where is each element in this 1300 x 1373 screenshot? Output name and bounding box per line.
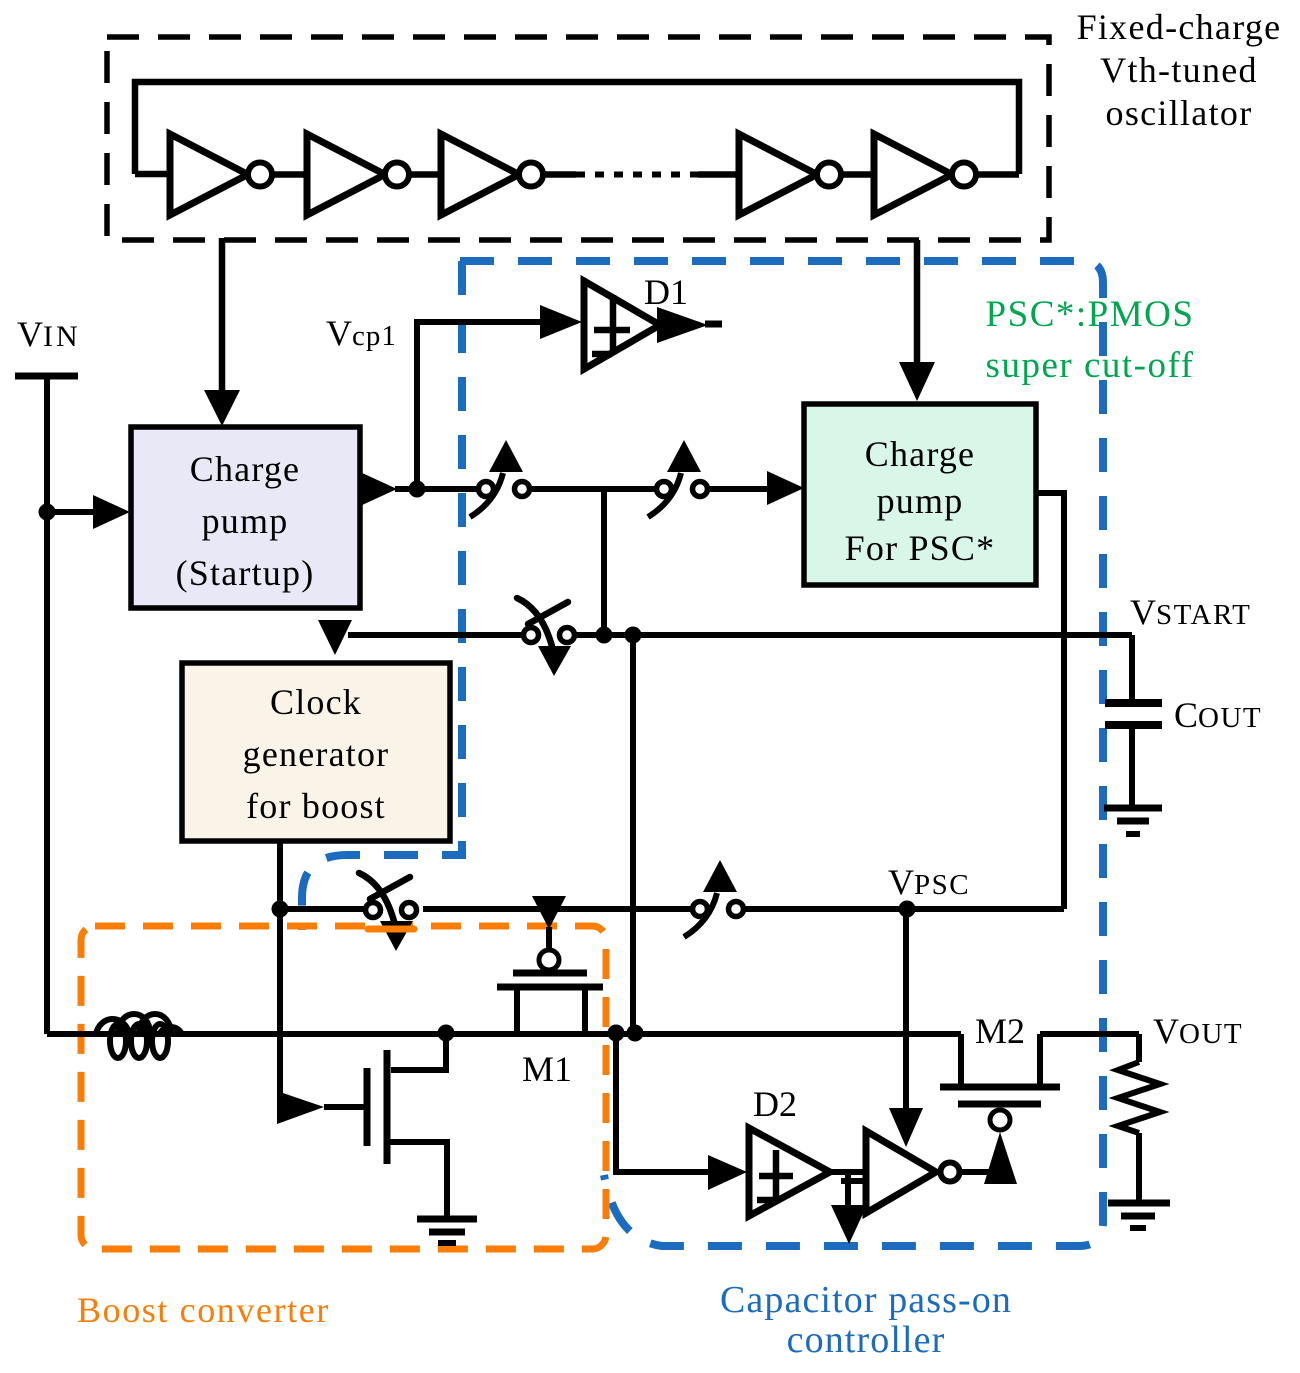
wire U4-U5 bbox=[841, 171, 874, 178]
wire U5 output to feedback bbox=[976, 171, 1019, 178]
charge pump for PSC box U-CP2 bbox=[804, 404, 1036, 585]
wire clock generator output down bbox=[277, 841, 283, 1095]
inductor L1 bbox=[110, 1024, 126, 1058]
switch S4 (opening, X and down arrow) bbox=[366, 903, 381, 918]
node M1 drain junction 1 bbox=[608, 1025, 625, 1042]
clock generator box bbox=[182, 663, 450, 841]
charge pump (startup) box U-CP1 bbox=[131, 427, 360, 608]
wire VSTART rail bbox=[348, 632, 525, 638]
node M1 drain junction 2 bbox=[627, 1025, 644, 1042]
switch S5 (closing, up arrow) bbox=[693, 902, 708, 917]
diode D2 (super diode) bbox=[749, 1128, 830, 1216]
wire PSC pump output down to VPSC bbox=[1036, 493, 1064, 909]
capacitor COUT bbox=[1129, 635, 1135, 701]
wire U1-U2 bbox=[272, 171, 307, 178]
svg-text:pump: pump bbox=[877, 481, 964, 521]
wire down to D2 input bbox=[616, 1033, 709, 1172]
svg-text:Fixed-charge: Fixed-charge bbox=[1077, 7, 1282, 47]
arrow up into M2 gate bbox=[984, 1132, 1017, 1184]
wire VPSC rail mid bbox=[423, 906, 691, 912]
svg-text:generator: generator bbox=[243, 734, 390, 774]
wire arrow down into clock generator bbox=[318, 620, 352, 655]
orange dashed boost converter box bbox=[81, 926, 606, 1249]
svg-text:For PSC*: For PSC* bbox=[845, 528, 996, 568]
svg-text:pump: pump bbox=[202, 501, 289, 541]
wire source of Q1 to ground bbox=[390, 1142, 447, 1217]
wire arrow into D1 bbox=[540, 305, 582, 339]
ground arrow at D2 output bbox=[845, 1172, 851, 1207]
node clock/VPSC junction bbox=[272, 901, 289, 918]
svg-text:super cut-off: super cut-off bbox=[986, 345, 1195, 386]
inverter U4 bbox=[739, 134, 817, 215]
wire inverter output to M2 gate bbox=[958, 1169, 996, 1175]
wire main bottom rail (inductor to M2) bbox=[47, 1031, 961, 1037]
wire into U4 bbox=[698, 171, 739, 178]
wire Vcp1 up to D1 bbox=[417, 322, 540, 489]
svg-text:D1: D1 bbox=[644, 272, 688, 312]
inverter U5 bbox=[874, 134, 952, 215]
switch S1 (closing, up arrow) bbox=[479, 482, 494, 497]
node Vcp1 junction bbox=[409, 481, 426, 498]
ground under Q1 bbox=[417, 1216, 477, 1223]
wire arrow into D2 bbox=[708, 1155, 747, 1190]
transistor M1 (PMOS) bbox=[513, 970, 587, 977]
resistor RL bbox=[1136, 1034, 1142, 1062]
svg-text:M2: M2 bbox=[975, 1011, 1025, 1051]
node VIN junction bbox=[39, 504, 56, 521]
svg-text:(Startup): (Startup) bbox=[176, 553, 315, 593]
switch S2 (closing, up arrow) bbox=[657, 482, 672, 497]
inverter U6 bbox=[866, 1131, 936, 1213]
wire Vcp1 rail to VSTART rail bbox=[601, 489, 607, 635]
svg-text:Vth-tuned: Vth-tuned bbox=[1100, 50, 1258, 90]
diode D1 (super diode) bbox=[584, 281, 660, 369]
wire between S1 and S2 bbox=[532, 486, 656, 492]
svg-text:Charge: Charge bbox=[190, 449, 301, 489]
transistor M1 gate arrow from VPSC rail bbox=[532, 896, 566, 929]
wire VPSC down to inverter supply bbox=[903, 909, 909, 1112]
wire VPSC rail bbox=[280, 906, 372, 912]
wire arrow into PSC pump bbox=[707, 486, 769, 492]
svg-text:Capacitor pass-on: Capacitor pass-on bbox=[720, 1279, 1012, 1321]
node VPSC bbox=[899, 901, 916, 918]
wire D2 output bbox=[830, 1169, 866, 1175]
wire U3 output bbox=[543, 171, 576, 178]
svg-text:M1: M1 bbox=[522, 1049, 572, 1089]
wire U2-U3 bbox=[409, 171, 441, 178]
ground under RL bbox=[1108, 1200, 1170, 1207]
wire M2 to VOUT bbox=[1040, 1031, 1139, 1037]
wire VSTART rail down to M1 drain rail bbox=[630, 635, 636, 1033]
wire VIN to startup pump bbox=[47, 509, 95, 515]
ground under COUT bbox=[1104, 805, 1162, 812]
transistor M2 (PMOS pass) bbox=[990, 1110, 1010, 1130]
svg-text:controller: controller bbox=[787, 1319, 946, 1361]
oscillator dashed box bbox=[107, 37, 1049, 240]
svg-text:Clock: Clock bbox=[270, 682, 362, 722]
svg-text:Charge: Charge bbox=[865, 434, 976, 474]
wire inverter chain input bbox=[135, 171, 170, 178]
orange dash overlay near switch S4 bbox=[368, 926, 414, 933]
inverter U1 bbox=[170, 134, 248, 215]
wire drain of Q1 bbox=[391, 1033, 446, 1070]
svg-text:Boost converter: Boost converter bbox=[77, 1290, 330, 1330]
svg-text:oscillator: oscillator bbox=[1106, 93, 1253, 133]
wire VIN vertical bbox=[44, 379, 50, 1034]
wire dotted ellipsis bbox=[576, 172, 698, 178]
inverter U2 bbox=[307, 134, 385, 215]
svg-text:D2: D2 bbox=[753, 1084, 797, 1124]
node boost drain junction bbox=[438, 1025, 455, 1042]
node VIN terminal bbox=[15, 373, 78, 380]
blue dashed controller boundary left bbox=[302, 261, 462, 930]
svg-text:for boost: for boost bbox=[246, 786, 386, 826]
wire oscillator tap to PSC charge pump bbox=[914, 240, 921, 364]
blue dashed controller boundary right/top bbox=[460, 261, 1103, 1246]
inverter U3 bbox=[441, 134, 519, 215]
switch S3 (opening, X and down arrow) bbox=[524, 628, 539, 643]
wire oscillator tap to startup charge pump bbox=[219, 238, 226, 392]
svg-text:VIN: VIN bbox=[17, 314, 81, 354]
transistor Q1 (boost NMOS) bbox=[384, 1050, 391, 1164]
wire VPSC rail right bbox=[744, 906, 1064, 912]
wire feedback loop of oscillator bbox=[135, 82, 1019, 174]
wire startup pump output arrow bbox=[360, 472, 397, 506]
node VSTART junctions bbox=[596, 627, 613, 644]
svg-text:PSC*:PMOS: PSC*:PMOS bbox=[986, 294, 1195, 335]
